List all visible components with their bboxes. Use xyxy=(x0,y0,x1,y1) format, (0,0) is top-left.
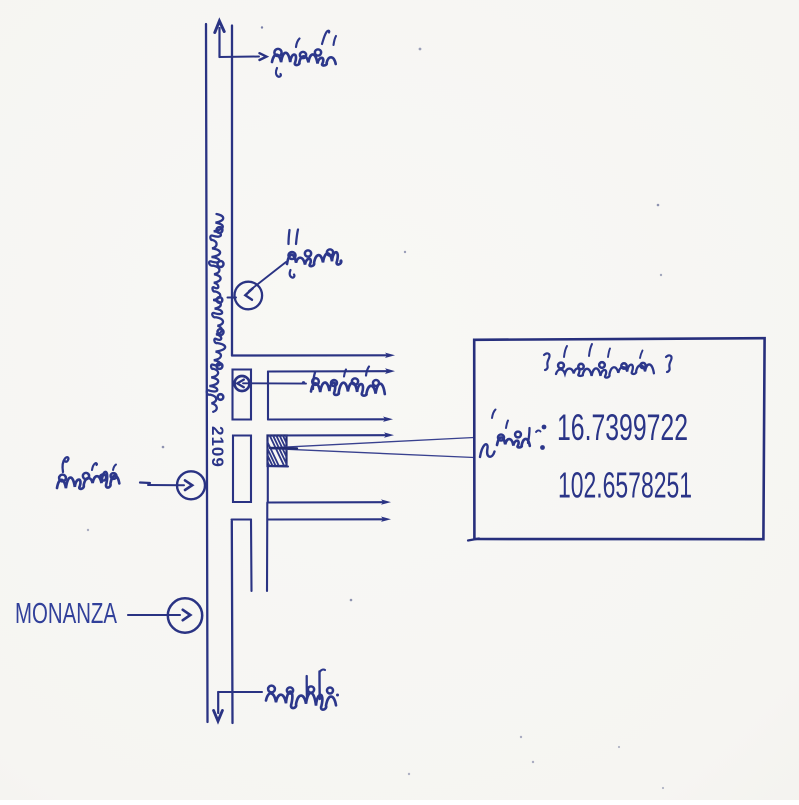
callout line lower xyxy=(271,449,474,458)
block B1 rectangle xyxy=(233,370,252,420)
svg-text:2109: 2109 xyxy=(208,426,227,468)
gas station arrow line xyxy=(148,484,184,486)
label pikat (Thai: coordinates) xyxy=(480,410,541,458)
coordinate latitude 16.7399722 xyxy=(557,407,688,448)
main road right line upper segment xyxy=(231,26,233,356)
arrowhead into pavilion circle xyxy=(237,380,244,388)
label u-khao-lek (Thai script) xyxy=(287,230,343,278)
svg-text:MONANZA: MONANZA xyxy=(15,598,117,630)
street S4 bottom arrowhead xyxy=(381,517,391,522)
street S2 bottom line xyxy=(268,418,386,420)
arrow line from label to circle xyxy=(249,262,286,291)
label Khon Kaen (Thai script) xyxy=(266,670,339,710)
MONANZA arrowhead xyxy=(183,610,191,620)
north arrow head xyxy=(215,21,224,33)
info box header (Thai script) xyxy=(544,344,672,378)
road name along highway (Thai script, rotated) xyxy=(207,214,226,412)
street S3 arrowhead xyxy=(384,432,394,437)
callout line upper xyxy=(271,438,474,448)
colon xyxy=(540,425,546,450)
MONANZA circle xyxy=(168,598,202,632)
label gas station (Thai script) xyxy=(57,457,119,489)
street line S1 xyxy=(232,354,388,356)
route number 2109 (rotated) xyxy=(208,426,227,468)
south arrow head xyxy=(214,711,223,722)
building marker bottom step xyxy=(268,465,289,468)
coordinate longitude 102.6578251 xyxy=(558,465,692,506)
main road right line lower segment xyxy=(231,521,234,723)
arrowhead pointing at Ubolratana label xyxy=(260,53,267,60)
paper specks xyxy=(87,26,664,789)
line from pavilion circle to label xyxy=(243,382,306,384)
label Ubolratana (Thai script) xyxy=(272,31,336,77)
street S4 bottom line xyxy=(268,518,385,520)
label MONANZA xyxy=(15,598,117,630)
tick from road to circle xyxy=(228,297,237,299)
MONANZA arrow line xyxy=(128,614,180,616)
main road left line xyxy=(206,24,208,722)
street S2 top line xyxy=(268,370,387,372)
branch line to Ubolratana label xyxy=(220,56,260,59)
block B3 top edge xyxy=(232,518,252,520)
street S1 arrowhead xyxy=(385,353,395,358)
svg-text:102.6578251: 102.6578251 xyxy=(558,465,692,506)
street S2 bottom arrowhead xyxy=(383,417,393,422)
branch line to Khon Kaen label xyxy=(218,691,262,693)
street S2 top arrowhead xyxy=(385,368,395,374)
street S4 top line xyxy=(268,501,384,503)
callout line thick start xyxy=(270,447,297,450)
junction circle (u-khao-lek) xyxy=(235,282,263,310)
svg-text:16.7399722: 16.7399722 xyxy=(557,407,688,448)
pavilion circle xyxy=(235,376,250,391)
gas station circle xyxy=(177,471,205,499)
street S4 top arrowhead xyxy=(381,499,391,504)
north arrow shaft xyxy=(218,28,220,57)
gas station tick xyxy=(140,481,150,484)
dot at line end xyxy=(302,381,305,384)
south arrow shaft xyxy=(217,692,219,713)
arrowhead into circle xyxy=(245,288,253,300)
road edge below building xyxy=(267,466,269,503)
info box rectangle xyxy=(468,338,765,540)
street S2 left edge xyxy=(267,372,269,420)
street S3 top line xyxy=(268,434,388,436)
gas station arrowhead xyxy=(185,480,192,490)
south side road right edge xyxy=(266,503,268,592)
hatched building marker (target premises) xyxy=(268,436,287,467)
block B2 rectangle xyxy=(233,436,251,503)
label sala-rim-thang (Thai script) xyxy=(311,367,385,396)
block B3 right edge xyxy=(250,520,253,592)
